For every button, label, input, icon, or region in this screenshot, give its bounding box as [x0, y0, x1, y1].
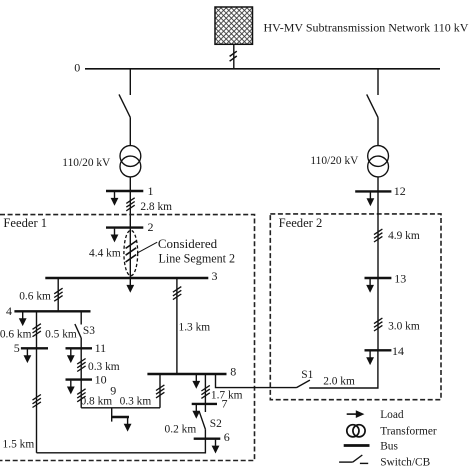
wire: bottom tie run to bus 6 [37, 439, 206, 453]
svg-text:Feeder 2: Feeder 2 [279, 216, 323, 230]
svg-text:13: 13 [394, 271, 406, 285]
wire: transformer T1 to bus 1 [129, 177, 131, 191]
switch S3 blade [75, 324, 81, 338]
svg-text:0.3 km: 0.3 km [120, 396, 152, 408]
line marker on bus8 leg [156, 385, 164, 398]
svg-text:2: 2 [148, 220, 154, 234]
svg-text:Feeder 1: Feeder 1 [3, 216, 47, 230]
legend: load symbol [347, 410, 365, 418]
svg-text:0.8 km: 0.8 km [81, 396, 113, 408]
svg-text:1: 1 [148, 184, 154, 198]
highlight ellipse: considered line segment 2 [124, 230, 138, 275]
wire: bus 8 to bus 7 (1.7 km) [204, 374, 206, 404]
wire: bus 0 to right trunk switch [377, 69, 379, 95]
svg-text:11: 11 [95, 341, 107, 355]
wire: switch to transformer T1 [129, 117, 131, 145]
line marker 1.3 km [173, 287, 181, 300]
svg-text:110/20 kV: 110/20 kV [62, 157, 111, 169]
svg-text:4.9 km: 4.9 km [388, 230, 420, 242]
line marker 0.6 km [33, 324, 41, 337]
switch S1 blade [297, 380, 310, 388]
load at bus 14 [366, 351, 374, 365]
load at bus 4 [19, 312, 27, 326]
wire: bus 12 to bus 13 (4.9 km) [377, 191, 379, 278]
wire: bus 7 to switch S2 [204, 404, 206, 412]
load at bus 10 [67, 381, 75, 395]
load at bus 1 [111, 192, 119, 206]
bus 14 [365, 349, 392, 351]
bus 8 [147, 373, 226, 375]
pointer line to considered segment [138, 242, 158, 253]
svg-text:8: 8 [230, 365, 236, 379]
bus 11 [66, 347, 93, 349]
line marker 0.8 km [77, 389, 85, 402]
load at bus 11 [67, 349, 75, 363]
line marker 0.3 km [77, 359, 85, 372]
wire: bus 11 to bus 10 (0.3 km) [80, 348, 82, 379]
line marker on source wire [230, 51, 237, 61]
svg-text:7: 7 [222, 397, 228, 411]
svg-text:4: 4 [6, 304, 12, 318]
wire: stub down to bus 9 bar [111, 408, 113, 422]
svg-text:S3: S3 [83, 325, 95, 337]
line marker 0.6 km [54, 288, 62, 301]
wire: bus 4 to switch S3 (0.5 km) [80, 311, 82, 324]
legend: transformer symbol [347, 425, 365, 437]
wire: bus 8 down to bus-9 run (0.3 km leg) [159, 374, 161, 408]
svg-text:6: 6 [224, 430, 230, 444]
bus 0 [85, 68, 440, 70]
svg-text:9: 9 [110, 383, 116, 397]
svg-text:0.5 km: 0.5 km [45, 329, 77, 341]
switch S2 blade [199, 412, 205, 430]
svg-text:14: 14 [392, 344, 404, 358]
line marker 2.8 km [126, 198, 134, 211]
switch/CB on feeder-2 trunk [367, 94, 378, 117]
svg-text:4.4 km: 4.4 km [89, 247, 121, 259]
line marker 3.0 km [374, 318, 382, 331]
svg-text:0: 0 [74, 61, 80, 75]
line marker 1.7 km [201, 385, 209, 398]
svg-text:3: 3 [212, 269, 218, 283]
bus 2 [106, 226, 143, 228]
svg-text:0.2 km: 0.2 km [165, 424, 197, 436]
transformer T1 110/20 kV [120, 146, 141, 177]
load at bus 6 [212, 440, 220, 454]
bus 12 [355, 190, 391, 192]
svg-text:3.0 km: 3.0 km [388, 320, 420, 332]
svg-text:2.0 km: 2.0 km [323, 376, 355, 388]
wire: source box down to bus 0 [233, 44, 235, 69]
load at bus 12 [367, 192, 375, 206]
Feeder 2 dashed boundary [270, 214, 441, 400]
load at bus 5 [24, 349, 32, 363]
line marker 1.5 km [33, 395, 41, 408]
load at bus 2 [111, 229, 119, 243]
wire: S3 to bus 11 [80, 338, 82, 348]
wire: switch to transformer T2 [377, 117, 379, 145]
svg-text:2.8 km: 2.8 km [140, 201, 172, 213]
wire: bus 1 to bus 2 (2.8 km) [129, 191, 131, 228]
bus 10 [66, 378, 93, 380]
svg-text:0.6 km: 0.6 km [19, 290, 51, 302]
legend: bus symbol [344, 444, 370, 447]
bus 5 [21, 347, 48, 349]
svg-text:HV-MV Subtransmission Network: HV-MV Subtransmission Network 110 kV [264, 21, 469, 35]
svg-text:1.5 km: 1.5 km [3, 439, 35, 451]
wire: bus 4 to bus 5 (0.6 km) [36, 311, 38, 348]
load at bus 8 [192, 375, 200, 389]
wire: bus 3 to bus 8 (1.3 km) [176, 278, 178, 374]
wire: bus 8 stub to S1 [216, 374, 297, 388]
wire: horizontal run bus 9 (0.3 km) [81, 407, 160, 409]
svg-text:Considered: Considered [158, 236, 218, 251]
wire: bus 10 down (0.8 km) [80, 380, 82, 408]
bus 9 bar [112, 416, 129, 418]
svg-text:S1: S1 [301, 369, 313, 381]
svg-text:1.3 km: 1.3 km [179, 321, 211, 333]
switch/CB on feeder-1 trunk [119, 94, 130, 117]
line marker 4.4 km (inside ellipse) [126, 241, 137, 262]
HV-MV subtransmission network source (hatched box) [215, 7, 253, 44]
svg-text:Load: Load [380, 409, 404, 421]
wire: bus 2 to bus 3 (4.4 km considered segment) [129, 228, 131, 278]
Feeder 1 dashed boundary [0, 215, 255, 461]
line marker 4.9 km [374, 229, 382, 242]
svg-text:Line Segment 2: Line Segment 2 [159, 252, 236, 266]
wire: bus 0 to left trunk switch [129, 69, 131, 95]
svg-text:0.3 km: 0.3 km [88, 361, 120, 373]
svg-text:Transformer: Transformer [380, 426, 437, 438]
svg-text:5: 5 [14, 341, 20, 355]
load at bus 3 [126, 279, 134, 293]
svg-text:10: 10 [95, 373, 107, 387]
label: Considered Line Segment 2 [158, 236, 235, 266]
wire: bus 3 to bus 4 (0.6 km) [57, 278, 59, 311]
legend: switch/CB symbol [339, 455, 368, 463]
wire: bus 13 to bus 14 (3.0 km) [377, 278, 379, 350]
bus 6 [194, 438, 221, 440]
svg-text:12: 12 [394, 184, 406, 198]
load at bus 7 [192, 405, 200, 419]
wire: bus 5 down 1.5 km tie [36, 348, 38, 453]
bus 13 [365, 277, 392, 279]
wire: S2 to bus 6 (0.2 km) [204, 429, 206, 438]
wire: transformer T2 to bus 12 [377, 177, 379, 192]
bus 3 [45, 277, 208, 279]
load at bus 13 [366, 279, 374, 293]
bus 7 [192, 403, 217, 405]
svg-text:Switch/CB: Switch/CB [380, 457, 430, 469]
svg-text:110/20 kV: 110/20 kV [310, 155, 359, 167]
svg-text:S2: S2 [210, 418, 222, 430]
bus 1 [106, 190, 143, 192]
svg-text:Bus: Bus [380, 440, 398, 452]
bus 4 [14, 310, 90, 312]
wire: S1 to feeder 2 (2.0 km) [309, 350, 378, 388]
load at bus 9 [124, 418, 132, 432]
transformer T2 110/20 kV [368, 146, 389, 177]
svg-text:0.6 km: 0.6 km [0, 329, 32, 341]
